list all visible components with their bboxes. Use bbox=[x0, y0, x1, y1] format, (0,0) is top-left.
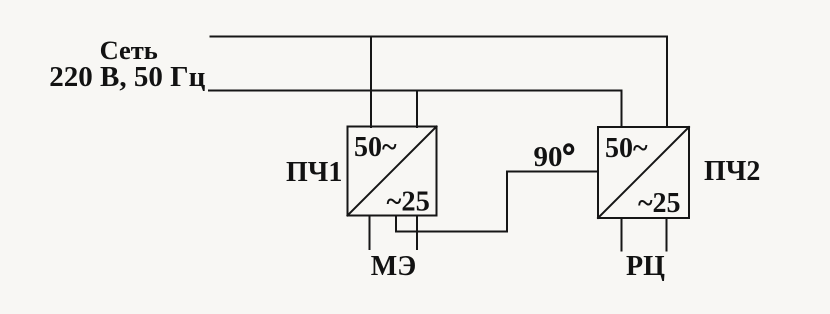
label degree superscript bbox=[565, 145, 573, 154]
svg-text:МЭ: МЭ bbox=[371, 251, 416, 282]
PCH2 diagonal bbox=[598, 127, 689, 218]
wire second bus drop to PCH1 bbox=[416, 91, 418, 128]
svg-text:~25: ~25 bbox=[387, 187, 430, 218]
wire PCH1 output lead right bbox=[416, 216, 418, 250]
wire PCH2 output lead right bbox=[666, 218, 668, 251]
wire PCH1 output lead left bbox=[369, 216, 371, 250]
svg-text:РЦ: РЦ bbox=[626, 251, 665, 282]
converter block PCH2 bbox=[598, 127, 689, 218]
svg-text:90: 90 bbox=[534, 141, 563, 173]
svg-text:ПЧ2: ПЧ2 bbox=[704, 156, 760, 187]
wire top bus drop to PCH1 bbox=[370, 37, 372, 128]
wire second supply bus with right drop to PCH2 bbox=[209, 91, 622, 128]
wire 90-degree phase link PCH1 to PCH2 bbox=[396, 172, 598, 232]
wire top supply bus with right drop to PCH2 bbox=[211, 37, 668, 128]
svg-text:50~: 50~ bbox=[605, 133, 648, 164]
PCH1 diagonal bbox=[348, 127, 437, 216]
svg-text:50~: 50~ bbox=[354, 132, 397, 163]
svg-text:~25: ~25 bbox=[638, 188, 681, 219]
svg-text:220 В, 50 Гц: 220 В, 50 Гц bbox=[49, 61, 205, 93]
converter block PCH1 bbox=[348, 127, 437, 216]
svg-text:ПЧ1: ПЧ1 bbox=[286, 157, 342, 188]
wire PCH2 output lead left bbox=[621, 218, 623, 251]
